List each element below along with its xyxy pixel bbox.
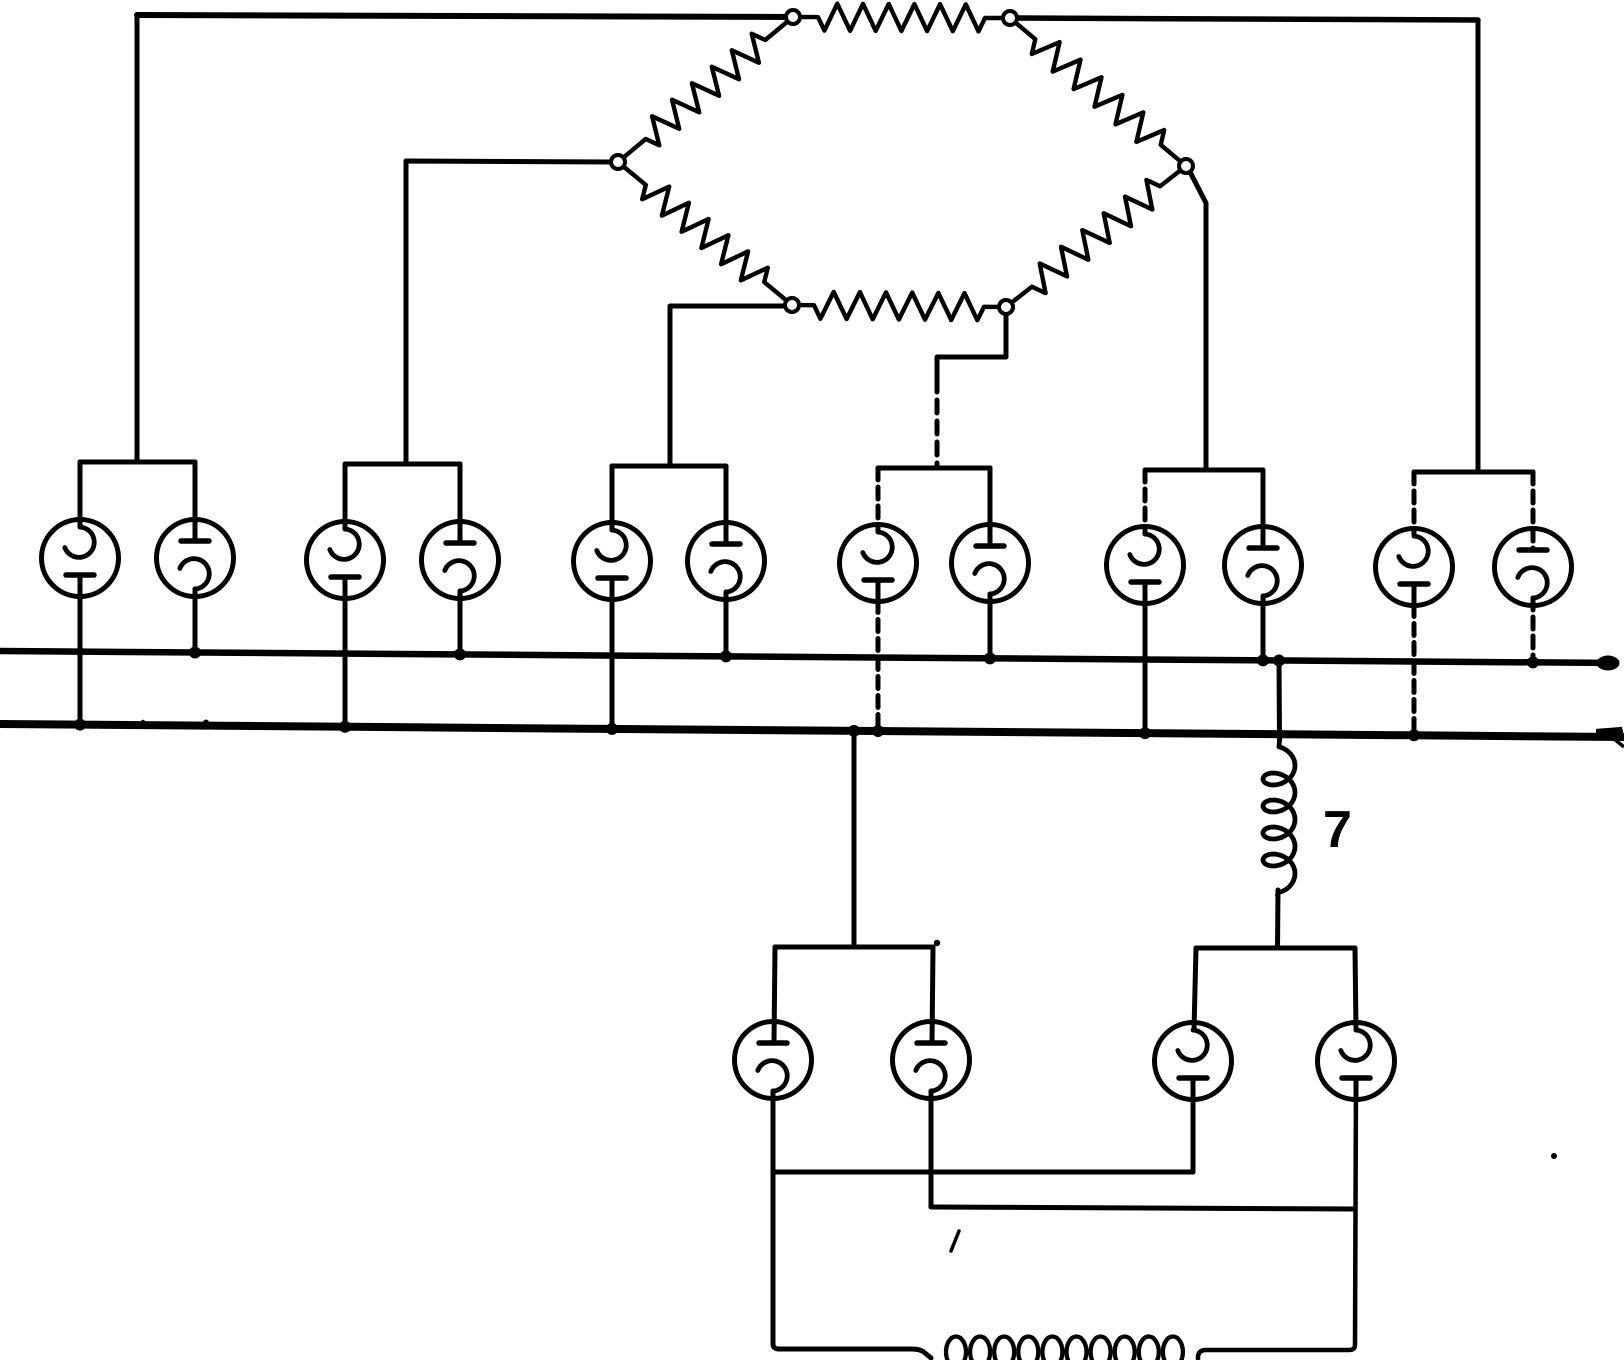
junction dot upper bus x=195	[189, 646, 201, 658]
resistor R6 lower-right arm	[1006, 166, 1186, 307]
tube V15	[1155, 1023, 1232, 1100]
wire pair B left leg	[1194, 948, 1196, 1030]
junction dot upper bus coil tap	[1273, 655, 1285, 667]
wire pair 1 left leg	[78, 462, 83, 527]
resistor R2 top arm	[793, 4, 1010, 32]
junction dot lower bus x=80	[74, 719, 86, 731]
tube V14	[893, 1022, 970, 1099]
wire lower bus to pair A bracket	[852, 731, 857, 947]
junction dot upper bus x=1533	[1527, 656, 1539, 668]
tube V10	[1225, 527, 1302, 604]
wire pair 3 left leg	[610, 466, 615, 530]
bus bar upper	[0, 651, 1604, 663]
wire tube V14 to link B	[929, 1091, 934, 1207]
wire node F to pair 4 upper	[937, 314, 1006, 392]
junction dot upper bus x=1263	[1257, 654, 1269, 666]
wire tube V16 down and to winding	[1198, 1079, 1356, 1361]
bus bar lower	[0, 724, 1624, 737]
tube V2	[157, 520, 234, 597]
arrowhead lower bus	[1596, 727, 1624, 741]
wire pair 5 right leg	[1261, 470, 1266, 548]
tube V6	[688, 523, 765, 600]
wire pair 2 right leg	[458, 464, 463, 543]
junction dot upper bus x=460	[454, 648, 466, 660]
wire pair 6 right leg	[1531, 472, 1536, 550]
dot at bracket A right end	[934, 940, 940, 946]
node E bridge bottom-left	[785, 298, 799, 312]
wire tube V10 to upper bus	[1261, 596, 1266, 660]
wire bracket of pair 5	[1145, 468, 1263, 473]
wire bracket of pair 6	[1414, 470, 1533, 475]
transformer winding bottom	[946, 1337, 1183, 1365]
wire link B V14-V16	[931, 1207, 1355, 1209]
junction dot lower bus x=1414	[1408, 729, 1420, 741]
wire inductor 7 to pair B bracket	[1275, 890, 1281, 948]
wire pair 6 left leg	[1412, 472, 1417, 536]
stray dot	[1551, 1153, 1557, 1159]
wire top feeder left segment	[137, 15, 793, 17]
wire bracket of pair 2	[345, 462, 460, 467]
junction dot lower bus x=1145	[1139, 727, 1151, 739]
wire right feeder drop to pair 6	[1476, 20, 1481, 472]
wire tube V7 to lower bus	[876, 601, 881, 732]
wire tube V15 to link A	[1191, 1079, 1196, 1173]
node C bridge left	[611, 155, 625, 169]
junction dot lower bus coil crossing	[1275, 729, 1285, 739]
svg-text:7: 7	[1323, 801, 1352, 859]
wire node F to pair 4 lower dashed	[935, 400, 940, 468]
wire node D to pair 5	[1190, 172, 1206, 470]
wire tube V3 to lower bus	[343, 598, 348, 727]
wire pair A right leg	[932, 947, 933, 1043]
wire bracket of pair 3	[612, 464, 726, 469]
tube V13	[735, 1022, 812, 1099]
wire tube V5 to lower bus	[610, 599, 615, 729]
node A bridge top-left	[786, 10, 800, 24]
wire bracket pair B	[1196, 946, 1355, 951]
wire pair 4 right leg	[988, 468, 993, 546]
inductor L7 coil	[1263, 740, 1295, 895]
resistor R4 lower-left arm	[618, 162, 792, 305]
wire top feeder right segment	[1010, 18, 1478, 20]
wire node E to pair 3	[670, 306, 785, 466]
wire pair 3 right leg	[724, 466, 729, 544]
tube V3	[307, 522, 384, 599]
wire pair 2 left leg	[343, 464, 348, 529]
tube V1	[42, 520, 119, 597]
wire bracket of pair 1	[80, 460, 195, 465]
wire tube V11 to lower bus	[1412, 605, 1417, 736]
node D bridge right	[1179, 159, 1193, 173]
junction dot lower bus x=612	[606, 723, 618, 735]
junction dot lower bus x=878	[872, 725, 884, 737]
wire tube V9 to lower bus	[1143, 603, 1148, 734]
wire tube V6 to upper bus	[724, 592, 729, 656]
wire pair 5 left leg	[1143, 470, 1148, 534]
wire tube V8 to upper bus	[988, 594, 993, 658]
wire link A V13-V15	[773, 1170, 1193, 1175]
wire bracket of pair 4	[878, 466, 990, 471]
tube V9	[1107, 527, 1184, 604]
resistor R1 upper-left arm	[618, 17, 793, 162]
wire pair 4 left leg	[876, 468, 881, 532]
speck on lower bus 2	[203, 720, 209, 726]
wire bracket pair A	[775, 945, 933, 950]
stray slash mark	[951, 1231, 959, 1251]
junction dot upper bus x=990	[984, 652, 996, 664]
junction dot lower bus x=854	[848, 725, 860, 737]
wire left feeder drop to pair 1	[135, 15, 140, 462]
node B bridge top-right	[1003, 11, 1017, 25]
tube V7	[840, 525, 917, 602]
wire pair 1 right leg	[193, 462, 198, 541]
node F bridge bottom-right	[999, 300, 1013, 314]
tube V4	[422, 522, 499, 599]
wire node C to pair 2	[406, 161, 611, 464]
wire pair A left leg	[774, 947, 775, 1043]
wire tube V4 to upper bus	[458, 591, 463, 654]
wire tube V13 down and to winding	[773, 1091, 931, 1358]
wire tube V1 to lower bus	[78, 596, 83, 725]
resistor R5 bottom arm	[792, 292, 1006, 320]
resistor R3 upper-right arm	[1010, 18, 1186, 166]
tube V11	[1376, 529, 1453, 606]
arrowhead upper bus	[1597, 656, 1620, 671]
wire upper bus to inductor 7	[1277, 661, 1283, 741]
tube V8	[952, 525, 1029, 602]
junction dot upper bus x=726	[720, 650, 732, 662]
wire tube V2 to upper bus	[193, 589, 198, 653]
tube V12	[1495, 529, 1572, 606]
wire pair B right leg	[1355, 948, 1356, 1030]
wire tube V12 to upper bus	[1531, 598, 1536, 662]
junction dot lower bus x=345	[339, 721, 351, 733]
tube V5	[574, 523, 651, 600]
speck on lower bus	[141, 720, 145, 724]
tube V16	[1318, 1023, 1395, 1100]
